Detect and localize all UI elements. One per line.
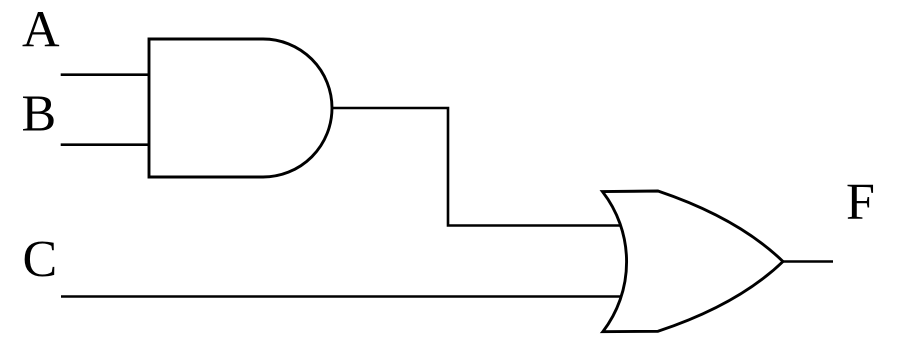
svg-text:F: F [846,173,875,230]
svg-text:A: A [22,2,60,59]
svg-text:B: B [22,86,57,143]
svg-text:C: C [23,231,58,288]
